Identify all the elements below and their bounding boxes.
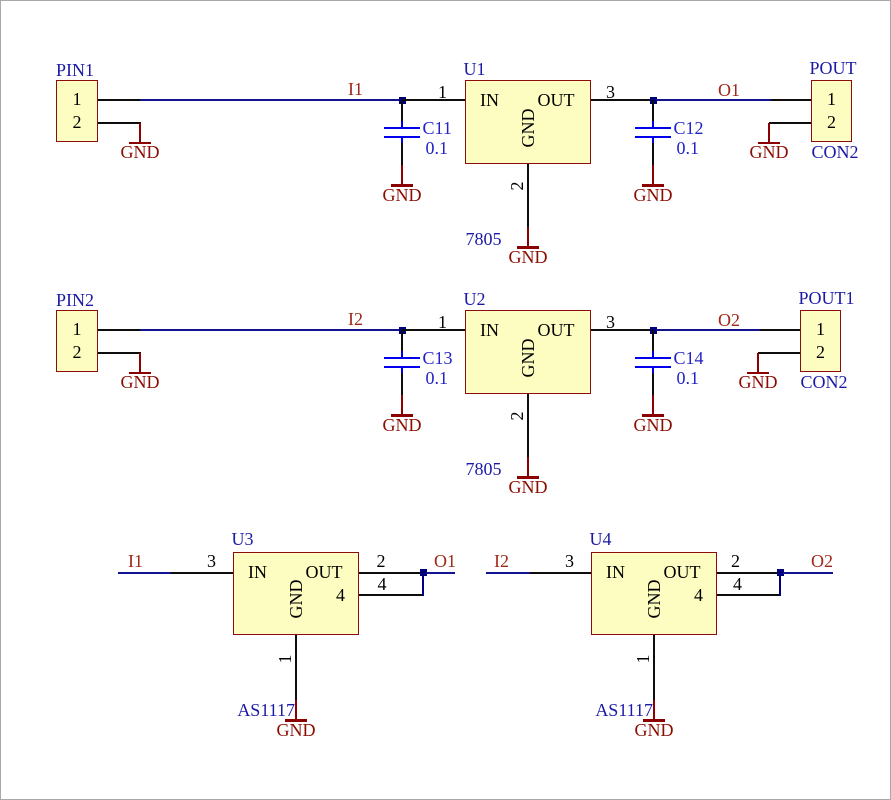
wire I1 to U3 pin 3 <box>171 572 233 574</box>
net label I2 <box>348 310 363 328</box>
POUT pin 2 number <box>817 113 847 131</box>
U2 pin 3 number <box>596 313 626 331</box>
wire U1 pin 2 stub <box>527 164 529 227</box>
wire I2 to U4 pin 3 <box>530 572 591 574</box>
U2 pin 2 number (rotated) <box>508 409 526 423</box>
POUT1 pin 1 number <box>806 320 836 338</box>
POUT pin 1 number <box>817 90 847 108</box>
label C14 <box>674 349 704 367</box>
net label I1 (U3) <box>128 552 143 570</box>
U3 pin name 4 (inside) <box>315 586 345 604</box>
label C12 <box>674 119 704 137</box>
wire U4 pin 4 stub <box>717 594 779 596</box>
label U1 <box>464 60 486 78</box>
ground GND below U1 pin 2 <box>527 227 529 246</box>
net label O1 (U3) <box>434 552 456 570</box>
wire PIN2 pin 1 stub <box>98 329 140 331</box>
connector POUT1 body <box>800 310 841 372</box>
value AS1117 (U4) <box>573 701 653 719</box>
U2 pin name OUT <box>495 321 575 339</box>
value 0.1 (C11) <box>426 139 449 157</box>
wire U4 pin 1 stub <box>653 635 655 700</box>
wire U4 pin 2 stub <box>717 572 780 574</box>
ground GND below C14 <box>652 395 654 414</box>
wire net O2 (output U4) <box>783 572 833 574</box>
U3 pin name IN <box>248 563 267 581</box>
wire U1 pin 3 stub <box>591 99 653 101</box>
PIN2 pin 2 number <box>62 343 92 361</box>
ground GND at PIN2 pin 2 <box>139 353 141 372</box>
U1 pin name GND (rotated) <box>519 108 537 148</box>
U4 pin 2 number <box>721 552 751 570</box>
wire net O1 (output U3) <box>426 572 455 574</box>
ground GND below C12 <box>652 165 654 184</box>
wire net I2 (input U4) <box>486 572 530 574</box>
U4 pin name 4 (inside) <box>673 586 703 604</box>
value 7805 (U2) <box>466 460 502 478</box>
wire O1 to POUT pin 1 <box>771 99 811 101</box>
regulator U1 body <box>465 80 591 164</box>
label C11 <box>423 119 452 137</box>
label U4 <box>590 530 612 548</box>
ground GND at POUT1 pin 2 <box>757 353 759 372</box>
wire PIN1 pin 1 stub <box>98 99 140 101</box>
connector PIN1 body <box>56 80 98 142</box>
U3 pin 3 number <box>197 552 227 570</box>
U4 pin name OUT <box>621 563 701 581</box>
ground GND below C13 <box>401 395 403 414</box>
capacitor C11 <box>401 100 403 121</box>
U1 pin 2 number (rotated) <box>508 179 526 193</box>
ground GND below U3 <box>295 700 297 719</box>
junction I1/C11 <box>399 97 406 104</box>
U1 pin name OUT <box>495 91 575 109</box>
value 0.1 (C14) <box>677 369 700 387</box>
POUT1 pin 2 number <box>806 343 836 361</box>
wire U3 pin 1 stub <box>295 635 297 700</box>
wire net O2 <box>656 329 760 331</box>
U3 pin name GND (rotated) <box>287 579 305 619</box>
ground GND below C11 <box>401 165 403 184</box>
label POUT <box>810 59 857 77</box>
U4 pin 1 number (rotated) <box>634 652 652 666</box>
label C13 <box>423 349 453 367</box>
junction O2 (U4) <box>777 569 784 576</box>
net label O2 (U4) <box>811 552 833 570</box>
PIN1 pin 1 number <box>62 90 92 108</box>
U3 pin 2 number <box>366 552 396 570</box>
label PIN1 <box>56 61 94 79</box>
U3 pin 1 number (rotated) <box>276 652 294 666</box>
wire C11 to U1 pin 1 <box>402 99 465 101</box>
U3 pin 4 number <box>367 575 397 593</box>
net label I2 (U4) <box>494 552 509 570</box>
wire O2 to POUT1 pin 1 <box>760 329 800 331</box>
junction I2/C13 <box>399 327 406 334</box>
U2 pin name GND (rotated) <box>519 338 537 378</box>
wire U2 pin 2 stub <box>527 394 529 457</box>
label PIN2 <box>56 291 94 309</box>
capacitor C13 <box>401 330 403 351</box>
capacitor C12 <box>652 100 654 121</box>
net label O1 <box>718 81 740 99</box>
U1 pin 3 number <box>596 83 626 101</box>
value AS1117 (U3) <box>215 701 295 719</box>
U4 pin name GND (rotated) <box>645 579 663 619</box>
ground GND below U4 <box>653 700 655 719</box>
regulator U3 body <box>233 552 359 635</box>
ground GND below U2 pin 2 <box>527 457 529 476</box>
U3 pin name OUT <box>263 563 343 581</box>
wire net I2 <box>140 329 401 331</box>
connector PIN2 body <box>56 310 98 372</box>
net label I1 <box>348 80 363 98</box>
wire PIN1 pin 2 stub <box>98 122 141 124</box>
regulator U4 body <box>591 552 717 635</box>
net label O2 <box>718 311 740 329</box>
wire net I1 (input U3) <box>118 572 171 574</box>
junction O2/C14 <box>650 327 657 334</box>
wire POUT pin 2 stub <box>769 122 811 124</box>
wire U2 pin 3 stub <box>591 329 653 331</box>
wire net I1 <box>140 99 401 101</box>
junction O1 (U3) <box>420 569 427 576</box>
U2 pin 1 number <box>428 313 458 331</box>
wire pin4 riser (U3) <box>422 573 424 596</box>
U1 pin 1 number <box>428 83 458 101</box>
U2 pin name IN <box>480 321 499 339</box>
wire POUT1 pin 2 stub <box>758 352 800 354</box>
label U2 <box>464 290 486 308</box>
capacitor C14 <box>652 330 654 351</box>
wire net O1 <box>656 99 771 101</box>
junction O1/C12 <box>650 97 657 104</box>
label U3 <box>232 530 254 548</box>
wire C13 to U2 pin 1 <box>402 329 465 331</box>
value 7805 (U1) <box>466 230 502 248</box>
label CON2 (POUT) <box>812 143 859 161</box>
connector POUT body <box>811 80 852 142</box>
wire U3 pin 4 stub <box>359 594 422 596</box>
U4 pin name IN <box>606 563 625 581</box>
U4 pin 4 number <box>723 575 753 593</box>
U4 pin 3 number <box>555 552 585 570</box>
PIN1 pin 2 number <box>62 113 92 131</box>
ground GND at PIN1 pin 2 <box>139 123 141 142</box>
U1 pin name IN <box>480 91 499 109</box>
ground GND at POUT pin 2 <box>768 123 770 142</box>
value 0.1 (C13) <box>426 369 449 387</box>
label CON2 (POUT1) <box>801 373 848 391</box>
value 0.1 (C12) <box>677 139 700 157</box>
wire PIN2 pin 2 stub <box>98 352 141 354</box>
regulator U2 body <box>465 310 591 394</box>
PIN2 pin 1 number <box>62 320 92 338</box>
wire pin4 riser (U4) <box>779 573 781 596</box>
wire U3 pin 2 stub <box>359 572 423 574</box>
label POUT1 <box>799 289 855 307</box>
